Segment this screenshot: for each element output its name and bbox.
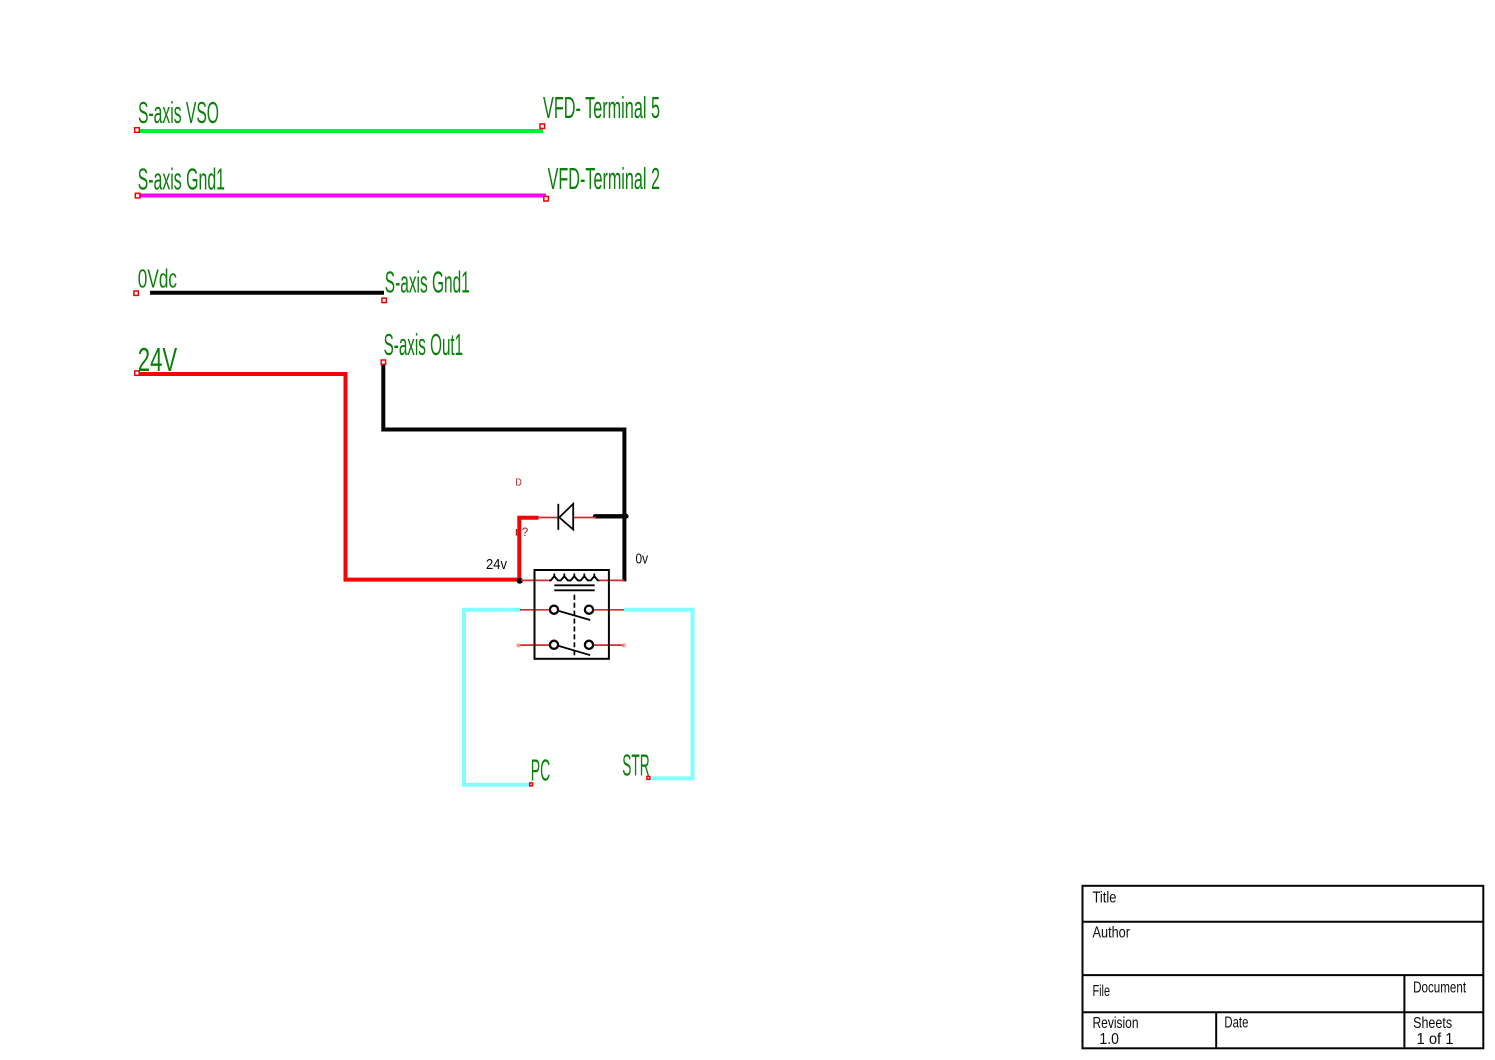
- svg-text:File: File: [1093, 983, 1111, 1000]
- svg-text:0v: 0v: [636, 551, 649, 567]
- svg-text:S-axis Out1: S-axis Out1: [384, 328, 464, 362]
- svg-text:?: ?: [522, 527, 529, 539]
- svg-text:24V: 24V: [138, 342, 178, 379]
- svg-text:24v: 24v: [486, 557, 508, 573]
- svg-text:S-axis VSO: S-axis VSO: [138, 96, 219, 130]
- svg-text:STR: STR: [622, 749, 650, 783]
- svg-text:Date: Date: [1224, 1015, 1248, 1032]
- svg-text:S-axis Gnd1: S-axis Gnd1: [138, 163, 225, 197]
- svg-text:1.0: 1.0: [1099, 1031, 1119, 1048]
- svg-text:Document: Document: [1413, 979, 1466, 996]
- svg-text:PC: PC: [531, 753, 551, 787]
- svg-text:0Vdc: 0Vdc: [138, 265, 177, 293]
- svg-text:VFD-Terminal 2: VFD-Terminal 2: [548, 162, 660, 196]
- svg-text:VFD- Terminal 5: VFD- Terminal 5: [543, 91, 660, 125]
- svg-text:Author: Author: [1093, 924, 1131, 941]
- svg-text:Sheets: Sheets: [1413, 1015, 1452, 1032]
- svg-text:1 of 1: 1 of 1: [1417, 1031, 1454, 1048]
- svg-text:Revision: Revision: [1093, 1015, 1139, 1032]
- svg-text:D: D: [516, 477, 523, 489]
- svg-text:Title: Title: [1093, 889, 1117, 906]
- svg-text:S-axis Gnd1: S-axis Gnd1: [385, 266, 470, 300]
